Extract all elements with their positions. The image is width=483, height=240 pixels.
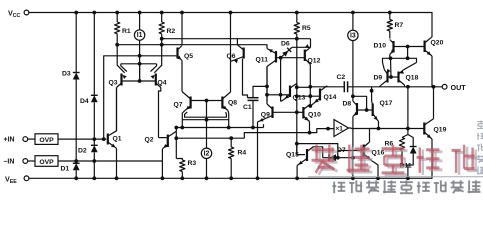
svg-text:R2: R2 bbox=[167, 28, 176, 35]
transistor Q8 bbox=[221, 97, 223, 109]
node x310 Q10/Q14 bbox=[308, 104, 312, 108]
wire Q16 collector riser bbox=[369, 129, 371, 143]
wire R6 riser bbox=[407, 87, 409, 135]
wire v267 to Q13 base bbox=[267, 94, 281, 96]
resistor R7 bbox=[387, 20, 392, 32]
transistor Q16 bbox=[363, 145, 365, 157]
node x310 OUT line bbox=[308, 85, 312, 89]
wire cup right drop bbox=[228, 120, 230, 128]
wire D9/Q18 base tie bbox=[388, 76, 399, 78]
wire Q11/Q12 base line bbox=[276, 57, 305, 59]
resistor R6 bbox=[402, 135, 408, 138]
wire Q7/Q8 base tie bbox=[191, 100, 223, 102]
node cup D9 left bbox=[389, 56, 393, 60]
wire upper line R2 to R5/Q12 bbox=[162, 38, 311, 40]
wire Q15 collector drop bbox=[314, 147, 323, 158]
wire Q17 collector riser bbox=[371, 87, 373, 101]
wire lineA bbox=[176, 127, 263, 129]
transistor Q2 bbox=[167, 135, 169, 148]
node R5/upper line bbox=[295, 37, 299, 41]
wire VCC rail bbox=[29, 12, 429, 14]
wire line2 Q1 riser to Q5 base bbox=[104, 56, 177, 139]
svg-text:Q15: Q15 bbox=[286, 152, 299, 159]
transistor D9 diode-connected bbox=[386, 72, 388, 83]
OVP block 1 bbox=[35, 134, 58, 145]
wire R4 to VEE bbox=[230, 159, 232, 179]
svg-text:–IN: –IN bbox=[4, 159, 15, 166]
wire cup left drop bbox=[181, 120, 183, 128]
wire -IN line to VEE bbox=[93, 161, 95, 178]
wire Q4 to Q2 base bbox=[159, 137, 167, 139]
wire Q19 base line bbox=[351, 128, 424, 130]
node x94/VEE bbox=[92, 176, 96, 180]
node v296/Q13b bbox=[295, 94, 299, 98]
node base line corner bbox=[406, 45, 410, 49]
OUT terminal bbox=[442, 84, 447, 89]
wire VCC to I3 bbox=[352, 13, 354, 31]
node VCC/Q6Q8 bbox=[229, 11, 233, 15]
wire Q11c to Q9c vertical bbox=[266, 67, 268, 102]
wire base center to cup bbox=[206, 101, 208, 120]
node D7 line D8em bbox=[351, 156, 355, 160]
wire cup dot to base tie bbox=[390, 58, 393, 77]
svg-text:OUT: OUT bbox=[451, 83, 467, 92]
wire upper line corner to Q12 bbox=[310, 39, 312, 48]
transistor D8 diode-connected bbox=[356, 103, 358, 115]
resistor R2 bbox=[159, 22, 164, 34]
node bases/D6 bbox=[279, 56, 283, 60]
wire Q10 base bbox=[297, 111, 304, 113]
wire C1 top link bbox=[253, 86, 267, 97]
node Q15em/VEE bbox=[295, 176, 299, 180]
node VCC/Q5 bbox=[180, 11, 184, 15]
svg-text:D6: D6 bbox=[281, 41, 290, 48]
node VCC/I3 bbox=[351, 11, 355, 15]
transistor Q14 bbox=[319, 89, 321, 101]
transistor Q4 bbox=[155, 74, 157, 86]
wire bases riser bbox=[280, 58, 282, 95]
node lineA start bbox=[174, 126, 178, 130]
node R2 bottom bbox=[160, 37, 164, 41]
transistor Q17 bbox=[372, 104, 374, 117]
transistor D10 diode-connected bbox=[392, 41, 394, 53]
wire Q19 collector riser bbox=[433, 87, 435, 119]
node Q17c bbox=[370, 89, 374, 93]
diode D4 bbox=[91, 94, 98, 96]
wire x1 input bbox=[333, 128, 336, 130]
diode D2 bbox=[91, 144, 98, 146]
svg-text:Q5: Q5 bbox=[184, 53, 193, 60]
svg-text:D1: D1 bbox=[61, 166, 70, 173]
svg-text:Q6: Q6 bbox=[227, 53, 236, 60]
node Q16em/VEE bbox=[376, 176, 380, 180]
wire v296 to Q14 area upper bbox=[297, 86, 311, 88]
node D8em/VEE bbox=[351, 176, 355, 180]
-IN input terminal bbox=[23, 159, 28, 164]
node D8/Q17 base bbox=[365, 108, 369, 112]
svg-text:×1: ×1 bbox=[336, 126, 344, 133]
svg-text:Q13: Q13 bbox=[293, 95, 306, 102]
node lineC R6 bbox=[406, 127, 410, 131]
svg-text:Q14: Q14 bbox=[324, 94, 337, 101]
resistor R1 bbox=[115, 22, 120, 34]
wire lower line R1 to Q11 bbox=[117, 45, 267, 49]
wire Q3 funnel inner bbox=[121, 64, 127, 72]
node lineB R4 bbox=[229, 136, 233, 140]
node VCC/D3 bbox=[74, 11, 78, 15]
wire R6 bottom bbox=[402, 151, 408, 166]
wire Q15 base riser bbox=[297, 144, 305, 155]
wire I3 jog to D8 bbox=[353, 96, 367, 110]
wire lineB jog bbox=[244, 129, 333, 139]
wire Q4 collector down bbox=[159, 88, 161, 138]
wire Q13 emitter join bbox=[281, 100, 284, 102]
wire Q6 base down to C1 bbox=[243, 59, 248, 98]
wire Q10 emitter down bbox=[309, 122, 311, 133]
wire R5 vertical down bbox=[296, 39, 298, 155]
svg-text:Q11: Q11 bbox=[256, 57, 269, 64]
node x310 Q14 base bbox=[308, 94, 312, 98]
wire Q3/Q4 base tie bbox=[122, 80, 156, 82]
svg-text:I1: I1 bbox=[137, 32, 143, 39]
wire D9 collector to OUT line bbox=[380, 85, 382, 87]
wire lineA rise to Q9 emitter bbox=[263, 124, 265, 127]
node VCC/R1 bbox=[115, 11, 119, 15]
transistor Q12 bbox=[304, 50, 306, 62]
wire Q9 collector vertical bbox=[266, 102, 268, 105]
wire R2 stub down bbox=[161, 39, 163, 66]
wire R7 down bbox=[389, 31, 391, 39]
node lineB start bbox=[174, 136, 178, 140]
wire Q3 collector to Q1 bbox=[116, 88, 118, 132]
svg-text:I2: I2 bbox=[204, 151, 210, 158]
transistor Q20 bbox=[424, 41, 426, 53]
transistor Q5 bbox=[176, 48, 178, 59]
svg-text:R7: R7 bbox=[395, 22, 404, 29]
diode D3 bbox=[73, 72, 80, 74]
wire Q2 collector vertical bbox=[175, 128, 177, 159]
wire D2 to -IN line bbox=[93, 152, 95, 161]
svg-text:D2: D2 bbox=[78, 148, 87, 155]
wire -IN to OVP bbox=[28, 160, 35, 162]
wire VEE rail corner to Q19 bbox=[429, 141, 432, 179]
wire VCC to I1 bbox=[139, 13, 141, 30]
wire R5 to upper line bbox=[296, 34, 298, 39]
svg-text:C2: C2 bbox=[337, 74, 346, 81]
wire I2 to VEE bbox=[206, 159, 208, 179]
svg-text:Q18: Q18 bbox=[406, 74, 419, 81]
node lineA cup right bbox=[227, 126, 231, 130]
wire VCC to R2 bbox=[161, 13, 163, 23]
node lower line/R2 bbox=[160, 43, 164, 47]
svg-text:Q10: Q10 bbox=[308, 112, 321, 119]
svg-text:R4: R4 bbox=[238, 150, 247, 157]
node I1/line2 bbox=[138, 54, 142, 58]
wire x310 vertical bbox=[309, 87, 311, 106]
OVP block 2 bbox=[35, 156, 58, 167]
wire C1 bottom bbox=[252, 100, 254, 127]
capacitor C1 bbox=[248, 97, 259, 99]
node I1/emitters bbox=[138, 62, 142, 66]
svg-text:D10: D10 bbox=[374, 43, 387, 50]
node Q9em/VEE bbox=[256, 176, 260, 180]
wire Q17 emitter down bbox=[378, 122, 380, 129]
wire Q14 emitter join bbox=[310, 104, 313, 107]
resistor R5 bbox=[294, 23, 299, 35]
diode D1 bbox=[73, 162, 80, 164]
node cup center bbox=[205, 118, 209, 122]
wire D8 base stub bbox=[357, 109, 367, 111]
transistor Q10 bbox=[302, 107, 304, 119]
svg-text:Q16: Q16 bbox=[372, 150, 385, 157]
node v296/Q10 base bbox=[295, 110, 299, 114]
wire Q18 funnel bbox=[404, 63, 417, 70]
wire D8 collector join bbox=[352, 96, 354, 101]
diode D11 branch bbox=[408, 135, 413, 147]
wire OUT line left bbox=[310, 86, 344, 88]
wire Q17 base bbox=[367, 109, 373, 111]
svg-text:Q1: Q1 bbox=[113, 136, 122, 143]
wire R4 top bbox=[230, 138, 232, 147]
wire D3 to -IN line bbox=[75, 80, 77, 162]
wire cup to I2 bbox=[206, 120, 208, 148]
transistor Q13 bbox=[289, 86, 291, 98]
svg-text:R1: R1 bbox=[122, 28, 131, 35]
VEE supply terminal bbox=[24, 176, 29, 181]
wire Q16 base jog bbox=[338, 150, 363, 152]
wire D7 line bbox=[323, 157, 353, 159]
wire VCC to D4 bbox=[93, 13, 95, 96]
node +IN/D2 bbox=[92, 137, 96, 141]
wire I1 to base tie bbox=[139, 64, 141, 81]
wire Q18 collector to OUT line bbox=[404, 85, 406, 87]
svg-text:D4: D4 bbox=[80, 98, 89, 105]
svg-text:+IN: +IN bbox=[4, 137, 15, 144]
diode D6 diagonal bbox=[281, 47, 292, 57]
wire D9 funnel bbox=[383, 63, 385, 70]
transistor Q11 bbox=[275, 51, 277, 63]
svg-text:Q19: Q19 bbox=[434, 127, 447, 134]
node v296/Q15 bbox=[295, 142, 299, 146]
wire D9/Q18 cup line bbox=[383, 58, 417, 62]
node -IN/D1 bbox=[74, 159, 78, 163]
diode D7 bbox=[328, 154, 330, 161]
wire D6 to Q12 collector corner bbox=[292, 46, 311, 48]
wire VCC to D3 bbox=[75, 13, 77, 73]
resistor R4 bbox=[229, 147, 234, 159]
wire Q20 emitter down bbox=[431, 56, 433, 87]
current source I3 bbox=[348, 30, 358, 40]
node Q13 base/riser bbox=[279, 93, 283, 97]
node VCC/I1 bbox=[138, 11, 142, 15]
wire Q4 funnel inner bbox=[151, 64, 157, 72]
wire Q14 collector join bbox=[326, 86, 328, 87]
wire Q4 funnel outer bbox=[154, 65, 161, 73]
svg-text:I3: I3 bbox=[350, 33, 356, 40]
wire D1 to VEE bbox=[75, 170, 77, 178]
current source I1 bbox=[134, 30, 144, 40]
capacitor C2 bbox=[343, 81, 345, 92]
wire cup outer bbox=[182, 110, 228, 119]
node R3/VEE bbox=[180, 176, 184, 180]
wire Q10 collector join bbox=[309, 105, 312, 107]
svg-text:OVP: OVP bbox=[39, 159, 54, 166]
node R6/VEE bbox=[406, 176, 410, 180]
wire Q12 collector down bbox=[309, 65, 311, 87]
svg-text:C1: C1 bbox=[243, 104, 252, 111]
svg-text:Q17: Q17 bbox=[380, 100, 393, 107]
transistor Q7 bbox=[190, 97, 192, 109]
node Q19/Q20 out bbox=[432, 85, 436, 89]
node R1 bottom bbox=[115, 43, 119, 47]
wire Q20 base drop bbox=[407, 47, 409, 59]
svg-text:Q7: Q7 bbox=[174, 102, 183, 109]
wire D10 base line to Q20 bbox=[394, 46, 425, 48]
node I3 bottom bbox=[351, 94, 355, 98]
wire Q6 collector to upper line bbox=[236, 39, 238, 45]
wire -IN riser to Q2 emitter bbox=[161, 149, 163, 179]
node I1/bases bbox=[138, 79, 142, 83]
wire Q1 emitter to VEE bbox=[116, 148, 118, 178]
node VCC/R7 bbox=[388, 11, 392, 15]
svg-text:Q9: Q9 bbox=[261, 111, 270, 118]
node VCC/R2 bbox=[160, 11, 164, 15]
wire Q5 emitter down bbox=[181, 61, 183, 92]
node x1 input bbox=[326, 127, 330, 131]
wire to R3 bbox=[176, 159, 182, 161]
wire R1 to node bbox=[116, 34, 118, 45]
wire Q9 base line bbox=[273, 111, 297, 113]
wire D8 emitter to VEE bbox=[352, 117, 354, 179]
svg-text:Q4: Q4 bbox=[158, 80, 167, 87]
svg-text:Q3: Q3 bbox=[109, 80, 118, 87]
node base tie bbox=[389, 75, 393, 79]
VCC supply terminal bbox=[24, 10, 29, 15]
transistor Q1 bbox=[107, 134, 109, 145]
wire Q13 base line bbox=[281, 94, 290, 96]
node cup Q18 right bbox=[406, 56, 410, 60]
transistor Q3 bbox=[120, 74, 122, 86]
wire +IN to D2 bbox=[93, 139, 95, 145]
svg-text:Q20: Q20 bbox=[431, 40, 444, 47]
wire R2 to node bbox=[161, 34, 163, 39]
wire -IN to D1 bbox=[75, 161, 77, 163]
svg-text:R5: R5 bbox=[302, 25, 311, 32]
node C1/lineA bbox=[251, 126, 255, 130]
transistor Q18 bbox=[397, 72, 399, 83]
wire VCC to R7 bbox=[389, 13, 391, 20]
wire VCC to Q5 collector bbox=[181, 13, 183, 45]
svg-text:D9: D9 bbox=[374, 75, 383, 82]
wire Q9 emitter down bbox=[257, 122, 259, 178]
node +IN riser bbox=[102, 137, 106, 141]
wire D4 to +IN line bbox=[93, 102, 95, 139]
node v267/C1 bbox=[265, 85, 269, 89]
node Q16/Q17 lineC bbox=[377, 127, 381, 131]
svg-text:Q2: Q2 bbox=[145, 137, 154, 144]
node Q10em/lineB bbox=[308, 131, 312, 135]
node lineA cup left bbox=[180, 126, 184, 130]
wire emitter tie line bbox=[121, 63, 157, 65]
wire cup inner bbox=[185, 112, 227, 117]
wire v296 to Q14 base line bbox=[297, 95, 319, 97]
svg-text:OVP: OVP bbox=[39, 137, 54, 144]
watermark text overlay bbox=[308, 121, 483, 194]
wire Q15 emitter to VEE bbox=[296, 166, 298, 179]
wire Q3 funnel outer bbox=[117, 45, 124, 73]
wire VEE rail bbox=[29, 177, 429, 179]
resistor R3 bbox=[180, 160, 185, 172]
node R4/VEE bbox=[229, 176, 233, 180]
node I2/VEE bbox=[205, 176, 209, 180]
node v296/Q13c bbox=[295, 85, 299, 89]
wire OVP2 to Q2 bbox=[58, 160, 162, 162]
wire VCC to R1 bbox=[116, 13, 118, 23]
wire x230 to Q8 bbox=[230, 61, 232, 92]
transistor Q6 bbox=[243, 48, 245, 59]
svg-text:Q8: Q8 bbox=[228, 100, 237, 107]
wire +IN to OVP bbox=[28, 138, 35, 140]
node v267/Q13 line bbox=[265, 93, 269, 97]
svg-text:D3: D3 bbox=[62, 71, 71, 78]
wire x1 output bbox=[349, 127, 352, 130]
wire VCC drop x230 bbox=[230, 13, 232, 62]
node D7 line riser bbox=[336, 156, 340, 160]
wire Q11 collector down bbox=[266, 67, 268, 102]
wire Q2 base entry bbox=[167, 137, 169, 139]
wire I3 down bbox=[352, 41, 354, 97]
wire OUT line right bbox=[348, 86, 443, 88]
wire VCC rail corner to Q20 bbox=[429, 13, 432, 38]
wire R3 to VEE bbox=[181, 172, 183, 179]
wire D10 emitter down bbox=[389, 55, 391, 59]
node VCC/R5 bbox=[295, 11, 299, 15]
buffer x1 bbox=[334, 120, 349, 137]
wire Q16 emitter to VEE bbox=[372, 161, 379, 179]
current source I2 bbox=[201, 148, 211, 158]
node base tie center bbox=[205, 99, 209, 103]
+IN input terminal bbox=[23, 137, 28, 142]
wire Q1 collector riser bbox=[116, 88, 118, 131]
svg-text:Q12: Q12 bbox=[308, 58, 321, 65]
node -IN/D2 bottom bbox=[92, 159, 96, 163]
node Q1em/VEE bbox=[115, 176, 119, 180]
transistor Q19 bbox=[423, 123, 425, 135]
transistor Q15 bbox=[306, 149, 308, 161]
wire Q13 collector join bbox=[296, 84, 298, 88]
node R6 top bbox=[406, 85, 410, 89]
wire I1 down bbox=[139, 40, 141, 81]
wire lineB bbox=[176, 137, 244, 139]
svg-text:D8: D8 bbox=[343, 101, 352, 108]
wire Q15 link line bbox=[297, 144, 338, 158]
node Q2em/VEE bbox=[161, 176, 165, 180]
wire OVP1 to Q1 base bbox=[58, 138, 106, 140]
wire VCC to R5 bbox=[296, 13, 298, 23]
transistor Q9 bbox=[271, 107, 273, 119]
node D1/VEE bbox=[74, 176, 78, 180]
svg-text:R3: R3 bbox=[188, 160, 197, 167]
node VCC/D4 bbox=[92, 11, 96, 15]
wire Q19 emitter bbox=[431, 139, 433, 141]
